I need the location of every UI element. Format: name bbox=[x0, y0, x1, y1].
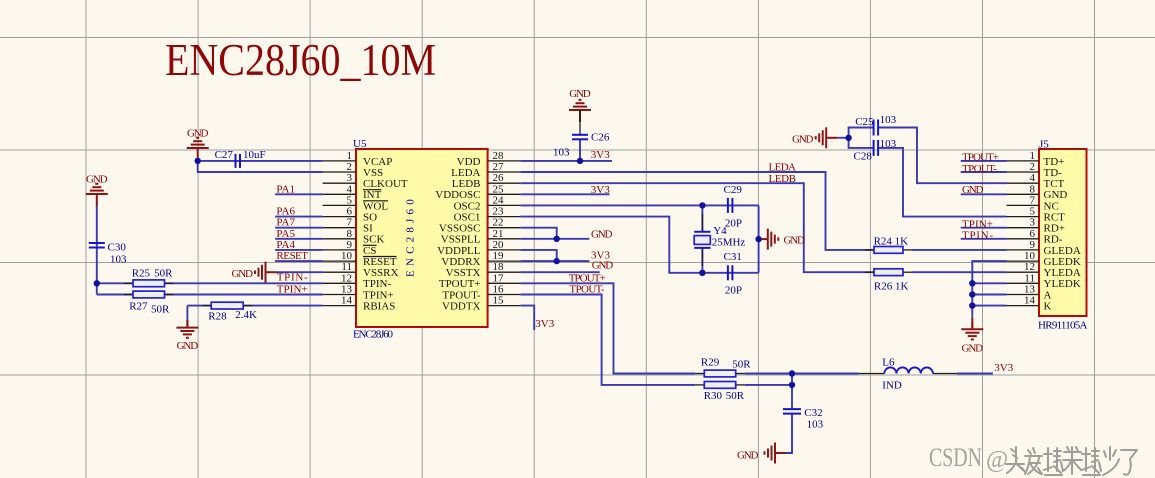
svg-text:C27: C27 bbox=[215, 149, 234, 161]
wire PA7 bbox=[275, 227, 323, 229]
U5 right pin numbers 28-15 bbox=[493, 150, 505, 307]
wire VDD 3V3 bbox=[520, 160, 612, 162]
wire OSC2 bbox=[520, 204, 758, 206]
wire junction vertical to C32 bbox=[791, 374, 793, 410]
svg-text:GND: GND bbox=[177, 340, 199, 352]
svg-text:24: 24 bbox=[493, 194, 505, 206]
net labels at J5 bbox=[962, 152, 999, 242]
svg-text:R27: R27 bbox=[129, 301, 148, 313]
svg-text:GND: GND bbox=[737, 450, 759, 462]
resistor R30 bbox=[695, 382, 744, 402]
svg-text:Y4: Y4 bbox=[713, 225, 727, 237]
inductor L6 bbox=[882, 357, 957, 392]
wire VDDRX 3V3 bbox=[520, 260, 589, 262]
J5 pin names bbox=[1044, 156, 1081, 313]
U5 pin stubs right bbox=[488, 161, 521, 306]
wire RD+ TPIN+ bbox=[961, 227, 1007, 229]
svg-text:50R: 50R bbox=[154, 268, 173, 280]
wire R26 to YLEDA bbox=[912, 271, 1007, 273]
wire OSC1 bbox=[520, 217, 758, 273]
svg-text:3V3: 3V3 bbox=[535, 318, 554, 330]
svg-text:20P: 20P bbox=[725, 285, 742, 297]
svg-text:2: 2 bbox=[347, 161, 353, 173]
svg-text:VSS: VSS bbox=[363, 167, 383, 179]
svg-text:9: 9 bbox=[347, 239, 353, 251]
watermark chinese glyph strokes bbox=[1006, 447, 1137, 475]
svg-text:TPOUT-: TPOUT- bbox=[569, 284, 604, 296]
J5 pin stubs bbox=[1007, 161, 1040, 306]
svg-text:YLEDK: YLEDK bbox=[1044, 278, 1081, 290]
svg-text:VDDPLL: VDDPLL bbox=[437, 245, 481, 257]
wire C30 branch bbox=[96, 205, 98, 283]
junction J5 YLEDK bbox=[969, 280, 975, 286]
svg-text:LEDA: LEDA bbox=[769, 162, 797, 174]
svg-text:20P: 20P bbox=[725, 218, 742, 230]
svg-text:11: 11 bbox=[1024, 272, 1035, 284]
svg-text:OSC2: OSC2 bbox=[454, 200, 481, 212]
svg-text:ENC28J60_10M: ENC28J60_10M bbox=[165, 35, 436, 85]
svg-text:C28: C28 bbox=[854, 151, 873, 163]
svg-text:9: 9 bbox=[1030, 239, 1036, 251]
svg-text:C31: C31 bbox=[724, 251, 742, 263]
svg-text:LEDA: LEDA bbox=[451, 167, 480, 179]
wire VDDOSC 3V3 bbox=[520, 193, 609, 195]
capacitor C30 bbox=[89, 242, 127, 266]
svg-text:7: 7 bbox=[1030, 194, 1036, 206]
ground G-R28 bbox=[176, 321, 198, 338]
wire LEDA bbox=[520, 172, 874, 250]
wire VCAP to C27 bbox=[198, 160, 323, 162]
resistor R25 bbox=[124, 268, 174, 287]
svg-text:K: K bbox=[1044, 301, 1052, 313]
svg-text:RESET: RESET bbox=[276, 250, 308, 262]
svg-text:C25: C25 bbox=[855, 116, 874, 128]
svg-text:CSDN: CSDN bbox=[929, 443, 982, 472]
wire YLEDK bbox=[972, 282, 1006, 284]
resistor R29 bbox=[695, 357, 751, 377]
svg-text:17: 17 bbox=[493, 272, 505, 284]
U5 pin stubs left bbox=[323, 161, 356, 306]
svg-text:14: 14 bbox=[341, 295, 353, 307]
junction VSSPLL bbox=[554, 236, 560, 242]
svg-text:GND: GND bbox=[86, 174, 108, 186]
wire LED A pin13 bbox=[972, 294, 1006, 296]
wire TD+ TPOUT+ bbox=[961, 160, 1007, 162]
svg-text:C30: C30 bbox=[108, 242, 127, 254]
svg-text:L6: L6 bbox=[882, 357, 895, 369]
svg-text:TPIN+: TPIN+ bbox=[962, 218, 993, 230]
wire LEDB bbox=[520, 183, 874, 272]
svg-text:IND: IND bbox=[882, 380, 902, 392]
svg-text:RBIAS: RBIAS bbox=[363, 301, 395, 313]
wire R24 to GLEDA bbox=[912, 249, 1007, 251]
wire PA4 bbox=[275, 249, 323, 251]
svg-text:GND: GND bbox=[592, 260, 614, 272]
wire C32 to GND bbox=[782, 414, 792, 453]
wire L6 to 3V3 bbox=[957, 373, 993, 375]
wire VSSRX to GND bbox=[276, 271, 323, 273]
junction TPIN bias bbox=[94, 280, 100, 286]
resistor R28 bbox=[202, 302, 257, 322]
U5 left pin numbers 1-14 bbox=[341, 150, 353, 307]
wire VSSPLL GND bbox=[520, 238, 589, 240]
capacitor C31 bbox=[724, 251, 743, 297]
svg-text:TPIN-: TPIN- bbox=[363, 278, 391, 290]
ground G-J5 bbox=[961, 322, 983, 339]
resistor R24 bbox=[865, 236, 912, 254]
svg-text:VDDTX: VDDTX bbox=[442, 301, 481, 313]
U5 right pin names bbox=[435, 156, 481, 313]
junction OSC2-XTAL bbox=[699, 202, 705, 208]
svg-text:U5: U5 bbox=[353, 138, 367, 150]
svg-text:@: @ bbox=[986, 447, 1008, 473]
svg-text:103: 103 bbox=[880, 138, 897, 150]
svg-text:ENC28J60: ENC28J60 bbox=[405, 195, 417, 277]
svg-text:3V3: 3V3 bbox=[591, 149, 610, 161]
svg-text:3V3: 3V3 bbox=[994, 362, 1013, 374]
svg-text:PA7: PA7 bbox=[276, 217, 295, 229]
connector J5 HR911105A body bbox=[1038, 139, 1088, 332]
junction VDD-C26 bbox=[577, 158, 583, 164]
net labels right of U5 bbox=[535, 149, 1013, 374]
svg-text:14: 14 bbox=[1024, 295, 1036, 307]
wire RBIAS to R28 bbox=[187, 305, 322, 307]
wire RESET bbox=[275, 260, 323, 262]
svg-text:NC: NC bbox=[1044, 200, 1059, 212]
svg-text:TPIN-: TPIN- bbox=[962, 230, 993, 242]
svg-text:PA4: PA4 bbox=[276, 239, 295, 251]
U5 left pin names bbox=[363, 156, 408, 313]
svg-text:50R: 50R bbox=[732, 359, 751, 371]
net labels left bbox=[276, 183, 308, 295]
wire TPIN- net bbox=[97, 282, 323, 284]
capacitor C28 bbox=[854, 138, 897, 162]
svg-text:GND: GND bbox=[232, 268, 254, 280]
capacitor C26 bbox=[553, 132, 610, 159]
wire PA5 bbox=[275, 238, 323, 240]
ground G-C26 bbox=[569, 100, 591, 122]
svg-text:R29: R29 bbox=[701, 357, 720, 369]
svg-text:C29: C29 bbox=[724, 184, 743, 196]
wire VSSOSC bbox=[520, 228, 556, 239]
svg-text:2.4K: 2.4K bbox=[235, 309, 257, 321]
svg-text:ENC28J60: ENC28J60 bbox=[353, 329, 394, 341]
svg-text:GND: GND bbox=[962, 184, 984, 196]
svg-text:R26 1K: R26 1K bbox=[874, 281, 909, 293]
svg-text:103: 103 bbox=[110, 254, 127, 266]
svg-text:LEDB: LEDB bbox=[769, 173, 797, 185]
svg-text:20: 20 bbox=[493, 239, 505, 251]
ground G-C27 bbox=[187, 138, 209, 160]
resistor R26 bbox=[865, 269, 912, 293]
svg-text:GND: GND bbox=[784, 235, 806, 247]
wire C28 to RCT bbox=[878, 148, 1006, 217]
wire TD- TPOUT- bbox=[961, 171, 1007, 173]
junction R30 out bbox=[789, 382, 795, 388]
wire VDDPLL bbox=[520, 250, 556, 261]
wire L6 pin left bbox=[859, 373, 885, 375]
wire C26 drop bbox=[579, 140, 581, 161]
wire J5 GND pin8 bbox=[961, 193, 1007, 195]
capacitor C32 bbox=[783, 407, 824, 431]
wire R28 to GND drop bbox=[186, 306, 188, 321]
capacitor C29 bbox=[724, 184, 743, 230]
IC U5 ENC28J60 body bbox=[353, 138, 488, 341]
wire GLEDK drop bbox=[972, 261, 1006, 318]
junction VDDRX bbox=[554, 258, 560, 264]
wire LED K pin14 bbox=[972, 305, 1006, 307]
junction XTAL-GND bbox=[755, 236, 761, 242]
junction J5 A bbox=[969, 291, 975, 297]
junction OSC1-XTAL bbox=[699, 270, 705, 276]
svg-text:15: 15 bbox=[493, 295, 505, 307]
ground G-VSSRX bbox=[255, 262, 277, 283]
svg-text:TPIN-: TPIN- bbox=[277, 272, 308, 284]
ground G-C30 bbox=[86, 184, 108, 206]
ground G-XTAL bbox=[757, 229, 779, 250]
wire TPOUT+ run bbox=[520, 283, 695, 373]
svg-text:CS: CS bbox=[363, 245, 376, 257]
svg-text:R28: R28 bbox=[208, 311, 227, 323]
svg-text:GND: GND bbox=[569, 88, 591, 100]
wire R30 to junction bbox=[745, 384, 792, 386]
J5 pin numbers bbox=[1024, 150, 1036, 307]
svg-text:PA1: PA1 bbox=[276, 183, 295, 195]
svg-text:J5: J5 bbox=[1039, 139, 1049, 151]
wire TPIN+ net bbox=[97, 294, 323, 296]
junction J5 K bbox=[969, 302, 975, 308]
svg-text:5: 5 bbox=[347, 194, 353, 206]
svg-text:GLEDA: GLEDA bbox=[1044, 245, 1081, 257]
capacitor C27 bbox=[215, 149, 266, 168]
svg-text:3V3: 3V3 bbox=[591, 184, 610, 196]
wire GND to C25/C28 junction bbox=[837, 137, 848, 139]
svg-text:50R: 50R bbox=[151, 304, 170, 316]
svg-text:TPOUT+: TPOUT+ bbox=[962, 152, 999, 164]
wire RD- TPIN- bbox=[961, 238, 1007, 240]
svg-text:TPOUT+: TPOUT+ bbox=[439, 278, 481, 290]
svg-text:R24 1K: R24 1K bbox=[874, 236, 909, 248]
svg-text:103: 103 bbox=[553, 147, 570, 159]
svg-text:2: 2 bbox=[1030, 161, 1036, 173]
ground G-C32 bbox=[765, 443, 787, 464]
capacitor C25 bbox=[855, 114, 896, 135]
ground G-C25C28 bbox=[816, 127, 838, 148]
svg-text:WOL: WOL bbox=[363, 200, 388, 212]
svg-text:10uF: 10uF bbox=[243, 149, 266, 161]
crystal Y4 25MHz bbox=[694, 214, 745, 267]
junction R29 out bbox=[789, 370, 795, 376]
wire PA1 bbox=[275, 193, 323, 195]
svg-text:27: 27 bbox=[493, 161, 505, 173]
svg-text:50R: 50R bbox=[726, 390, 745, 402]
svg-text:C26: C26 bbox=[591, 132, 610, 144]
svg-text:12: 12 bbox=[341, 272, 352, 284]
svg-text:GND: GND bbox=[962, 343, 984, 355]
wire TPIN bias vertical bbox=[96, 283, 98, 294]
junction VCAP-GND bbox=[195, 158, 201, 164]
wire crystal right vertical bbox=[758, 205, 760, 272]
junction C25C28-GND bbox=[845, 135, 851, 141]
wire crystal bottom lead bbox=[701, 248, 703, 273]
svg-text:HR911105A: HR911105A bbox=[1038, 320, 1088, 332]
svg-text:GND: GND bbox=[591, 228, 613, 240]
resistor R27 bbox=[124, 291, 174, 315]
wire GND junction down to VSS bbox=[198, 161, 323, 172]
svg-text:R30: R30 bbox=[704, 390, 723, 402]
svg-text:GND: GND bbox=[187, 128, 209, 140]
svg-text:TD-: TD- bbox=[1044, 167, 1063, 179]
svg-text:TPOUT-: TPOUT- bbox=[962, 163, 997, 175]
wire VSSTX GND bbox=[520, 271, 599, 273]
wire C25 branch bbox=[849, 128, 874, 138]
wire TPOUT- run bbox=[520, 295, 695, 385]
svg-text:R25: R25 bbox=[132, 268, 151, 280]
svg-text:PA6: PA6 bbox=[276, 205, 295, 217]
wire C25 to TCT bbox=[878, 128, 1006, 184]
svg-text:GND: GND bbox=[792, 134, 814, 146]
svg-text:C32: C32 bbox=[804, 407, 822, 419]
wire VDDTX 3V3 bbox=[520, 306, 534, 330]
svg-text:103: 103 bbox=[807, 419, 824, 431]
wire R29 to junction bbox=[745, 373, 859, 375]
wire crystal top lead bbox=[701, 205, 703, 231]
svg-text:25MHz: 25MHz bbox=[712, 236, 746, 248]
wire C28 branch bbox=[849, 138, 874, 148]
svg-text:103: 103 bbox=[880, 114, 897, 126]
wire PA6 bbox=[275, 216, 323, 218]
svg-text:TPIN+: TPIN+ bbox=[277, 284, 308, 296]
